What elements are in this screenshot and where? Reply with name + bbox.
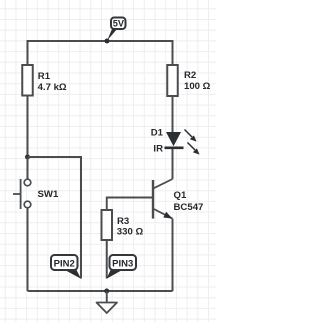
label PIN2 xyxy=(51,255,81,279)
node A junction dot xyxy=(25,155,30,160)
svg-text:R2: R2 xyxy=(184,70,196,81)
node ground junction dot xyxy=(104,289,109,294)
wire Q1 emitter to bottom rail xyxy=(172,219,174,291)
svg-text:PIN3: PIN3 xyxy=(112,259,133,270)
switch SW1 xyxy=(13,179,59,209)
wire node A to PIN2 stub xyxy=(28,157,82,279)
svg-text:SW1: SW1 xyxy=(38,189,59,200)
svg-text:Q1: Q1 xyxy=(174,190,187,201)
wire node A to SW1 xyxy=(27,157,29,179)
svg-text:D1: D1 xyxy=(151,127,164,138)
LED arrow 2 xyxy=(188,143,200,155)
LED D1 xyxy=(151,127,184,154)
svg-text:IR: IR xyxy=(153,144,163,155)
label PIN3 xyxy=(107,255,137,279)
wire SW1 bottom to bottom rail xyxy=(27,208,29,291)
transistor Q1 xyxy=(153,179,203,219)
svg-text:5V: 5V xyxy=(113,19,125,29)
ground xyxy=(97,291,118,313)
node 5V junction dot xyxy=(105,39,110,44)
svg-text:PIN2: PIN2 xyxy=(54,259,75,270)
wire D1 to Q1 collector xyxy=(172,149,174,179)
wire R1 bottom to node A xyxy=(27,96,29,158)
svg-text:BC547: BC547 xyxy=(174,202,204,213)
wire right rail upper (top rail to R2) xyxy=(172,40,174,65)
wire R2 bottom to D1 xyxy=(172,96,174,132)
wire R3 bottom to PIN3 stub xyxy=(106,240,108,279)
svg-text:4.7 kΩ: 4.7 kΩ xyxy=(38,82,67,93)
resistor R2 xyxy=(167,65,210,96)
svg-text:R3: R3 xyxy=(117,216,129,227)
svg-text:330 Ω: 330 Ω xyxy=(117,227,144,238)
LED arrow 1 xyxy=(185,130,197,142)
resistor R1 xyxy=(22,65,67,96)
resistor R3 xyxy=(102,210,144,240)
wire bottom rail xyxy=(28,290,173,292)
wire top rail xyxy=(28,40,173,42)
svg-text:R1: R1 xyxy=(38,71,51,82)
wire left rail upper (top rail to R1) xyxy=(27,40,29,65)
label 5V xyxy=(107,18,125,41)
svg-text:100 Ω: 100 Ω xyxy=(184,81,211,92)
wire base to R3 top xyxy=(107,198,152,211)
